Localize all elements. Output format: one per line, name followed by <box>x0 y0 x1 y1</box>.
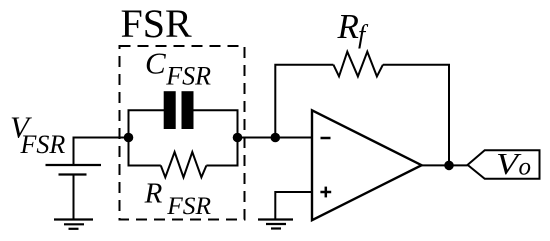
wire: node C to op-amp inverting input <box>275 137 312 139</box>
node A <box>124 133 134 143</box>
label V_FSR <box>10 109 65 159</box>
wire: feedback riser and top-left segment <box>275 65 333 138</box>
node B <box>233 133 243 143</box>
ground (op-amp non-inverting) <box>258 220 293 229</box>
wire: node A up to capacitor <box>129 110 165 137</box>
wire: battery to ground <box>73 176 75 220</box>
output flag Vo <box>468 150 540 179</box>
wire: source top to node A <box>74 138 127 167</box>
svg-text:o: o <box>519 154 532 181</box>
svg-text:C: C <box>145 46 166 81</box>
wire: node B to node C <box>238 137 276 139</box>
svg-text:FSR: FSR <box>121 1 192 46</box>
svg-text:R: R <box>144 177 163 209</box>
battery V_FSR top plate <box>46 164 102 166</box>
svg-text:FSR: FSR <box>165 62 211 91</box>
label C_FSR <box>145 46 211 91</box>
wire: op-amp output to flag <box>422 164 468 166</box>
op-amp U1 <box>312 110 422 220</box>
node C <box>271 133 281 143</box>
op-amp plus sign <box>320 187 331 198</box>
node D (output) <box>444 161 454 171</box>
FSR dashed box <box>120 46 245 220</box>
resistor R_FSR <box>161 152 207 177</box>
ground (battery) <box>54 220 93 229</box>
svg-text:FSR: FSR <box>20 130 66 159</box>
svg-text:FSR: FSR <box>166 192 211 220</box>
wire: resistor to node B <box>206 138 237 166</box>
svg-text:R: R <box>337 7 359 46</box>
label Vo <box>496 146 531 181</box>
wire: capacitor to node B <box>193 110 237 137</box>
resistor Rf <box>333 52 383 77</box>
capacitor C_FSR <box>164 91 194 129</box>
label R_FSR <box>144 177 212 219</box>
op-amp minus sign <box>321 137 331 140</box>
battery V_FSR bottom plate <box>59 173 87 175</box>
wire: node A down to resistor <box>129 138 161 166</box>
wire: feedback top-right segment and right drop <box>383 65 449 166</box>
label Rf <box>337 7 370 49</box>
wire: non-inverting input to ground <box>275 192 312 220</box>
